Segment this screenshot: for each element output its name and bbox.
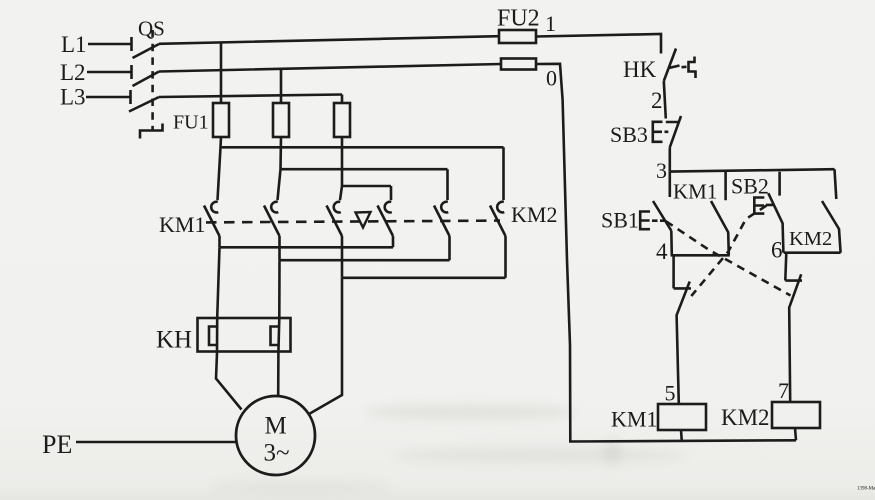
svg-text:KM2: KM2 xyxy=(721,405,770,430)
svg-text:KM2: KM2 xyxy=(511,202,557,227)
svg-text:4: 4 xyxy=(656,239,668,264)
svg-text:SB2: SB2 xyxy=(731,174,769,199)
svg-text:3~: 3~ xyxy=(264,440,290,467)
svg-text:L1: L1 xyxy=(61,32,87,57)
svg-text:L2: L2 xyxy=(60,60,86,85)
svg-text:1398-Mar_tBR: 1398-Mar_tBR xyxy=(857,487,875,492)
svg-text:KM1: KM1 xyxy=(611,407,657,432)
svg-text:KM2: KM2 xyxy=(789,228,832,250)
svg-text:FU2: FU2 xyxy=(497,6,540,32)
svg-text:SB3: SB3 xyxy=(610,122,648,147)
svg-text:QS: QS xyxy=(138,17,165,41)
svg-text:KM1: KM1 xyxy=(159,212,205,237)
svg-text:3: 3 xyxy=(656,158,667,183)
svg-text:L3: L3 xyxy=(60,85,86,110)
svg-text:1: 1 xyxy=(545,11,556,36)
svg-text:FU1: FU1 xyxy=(173,112,209,134)
svg-text:2: 2 xyxy=(651,88,663,113)
svg-text:SB1: SB1 xyxy=(601,208,639,233)
svg-text:0: 0 xyxy=(546,66,557,91)
svg-text:HK: HK xyxy=(623,57,657,82)
svg-text:6: 6 xyxy=(771,238,783,263)
svg-text:KH: KH xyxy=(156,327,192,354)
svg-text:KM1: KM1 xyxy=(673,180,717,204)
svg-text:7: 7 xyxy=(778,378,789,403)
svg-text:PE: PE xyxy=(42,430,72,459)
svg-text:M: M xyxy=(265,413,287,440)
svg-text:5: 5 xyxy=(665,381,676,406)
